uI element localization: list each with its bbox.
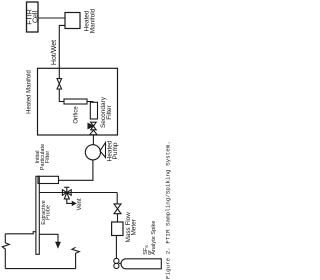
cylinder valve circles — [114, 258, 119, 263]
valve V4 — [114, 204, 121, 214]
wire manifold to pump — [92, 135, 94, 145]
svg-text:Filter: Filter — [45, 151, 51, 164]
wire FTIR cell to heated manifold box — [38, 17, 65, 19]
wire vent branch — [67, 199, 73, 204]
valve V3 — [62, 190, 71, 199]
manifold outlet triangle — [90, 130, 98, 135]
svg-text:Cell: Cell — [33, 11, 40, 24]
heated manifold (main) box — [38, 68, 118, 135]
FTIR cell box — [27, 2, 39, 32]
svg-text:Probe: Probe — [46, 205, 52, 220]
gas cylinder — [121, 259, 161, 269]
valve V1 — [57, 79, 62, 89]
wire circles to cylinder — [119, 262, 122, 264]
extractive probe — [36, 176, 39, 254]
wire mass flow meter to cylinder — [115, 236, 117, 259]
svg-text:Meter: Meter — [131, 219, 138, 235]
valve V3 handle — [64, 187, 69, 192]
orifice — [64, 99, 87, 104]
wire orifice to secondary filter — [87, 101, 93, 104]
duct wall top — [5, 232, 36, 234]
valve V2 — [91, 122, 97, 130]
wire vent line — [39, 192, 117, 194]
svg-text:Filter: Filter — [106, 104, 113, 119]
svg-text:Manifold: Manifold — [90, 8, 97, 33]
duct wall top right — [39, 234, 58, 242]
svg-text:Hot/Wet: Hot/Wet — [51, 40, 58, 65]
svg-text:Heated Manifold: Heated Manifold — [27, 70, 33, 114]
vent arrow — [72, 202, 75, 206]
svg-text:Pump: Pump — [112, 142, 119, 159]
pump cone — [100, 143, 106, 158]
svg-text:Figure 2. FTIR Sampling/Spikin: Figure 2. FTIR Sampling/Spiking System. — [165, 141, 172, 279]
duct wall left with break — [2, 234, 9, 269]
heated manifold (top) box — [65, 13, 80, 29]
secondary filter — [90, 102, 97, 119]
wire valve to orifice — [59, 89, 64, 102]
wire Hot/Wet — [59, 25, 65, 79]
duct wall bottom — [5, 268, 75, 270]
wire pump to filter — [59, 160, 93, 180]
initial particulate filter — [38, 176, 59, 183]
svg-text:Orifice: Orifice — [73, 106, 79, 124]
svg-text:Analyte Spike: Analyte Spike — [151, 221, 157, 255]
heated pump — [85, 145, 100, 160]
wire valve to mass flow meter — [117, 214, 119, 222]
mass flow meter box — [112, 222, 123, 236]
duct flow arrow — [56, 242, 60, 247]
svg-text:Vent: Vent — [77, 198, 83, 210]
duct wall right with break — [72, 247, 79, 268]
wire to spike valve — [116, 193, 118, 204]
valve V2 actuator — [88, 124, 93, 129]
